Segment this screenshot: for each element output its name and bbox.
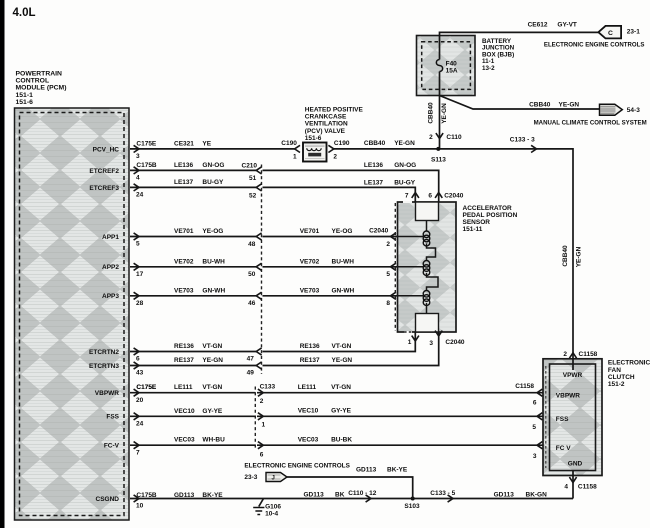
svg-text:1: 1 bbox=[293, 153, 297, 160]
svg-text:28: 28 bbox=[136, 300, 144, 307]
PCM pin ETCRTN3 label, exit arrow, pin 43 bbox=[89, 362, 144, 377]
svg-text:ETCREF3: ETCREF3 bbox=[89, 185, 119, 192]
svg-text:BU-GY: BU-GY bbox=[394, 180, 416, 187]
svg-text:CE321: CE321 bbox=[174, 140, 194, 147]
svg-text:46: 46 bbox=[248, 300, 256, 307]
svg-text:54-3: 54-3 bbox=[627, 107, 640, 114]
PCM pin ETCREF3 label, exit arrow, pin 24 bbox=[89, 184, 143, 199]
svg-text:CLUTCH: CLUTCH bbox=[608, 374, 635, 381]
svg-text:LE136: LE136 bbox=[364, 162, 384, 169]
svg-text:FAN: FAN bbox=[608, 367, 621, 374]
svg-text:7: 7 bbox=[136, 449, 140, 456]
svg-text:VPWR: VPWR bbox=[563, 372, 583, 379]
splice S103 bbox=[404, 497, 420, 511]
PCM pin FC-V label, exit arrow, pin 7 bbox=[104, 442, 140, 457]
svg-text:24: 24 bbox=[136, 421, 144, 428]
PCM pin APP2 label, exit arrow, pin 17 bbox=[102, 263, 144, 278]
battery junction box (BJB) with fuse F40 15A bbox=[417, 36, 476, 96]
svg-text:RE137: RE137 bbox=[174, 357, 194, 364]
svg-text:RE137: RE137 bbox=[300, 357, 320, 364]
svg-text:VBPWR: VBPWR bbox=[556, 392, 581, 399]
wire CBB40 YE-GN from C190 to S113 bbox=[334, 140, 439, 149]
svg-text:BU-GY: BU-GY bbox=[202, 179, 224, 186]
connector C133 pin 5 inline arrow bbox=[430, 490, 455, 502]
electronic engine controls text (top) bbox=[544, 41, 645, 48]
svg-text:151-11: 151-11 bbox=[463, 226, 483, 233]
svg-text:YE-OG: YE-OG bbox=[202, 228, 223, 235]
svg-text:C133: C133 bbox=[260, 384, 276, 391]
wire LE136 GN-OG from PCM pin 4 to C210 bbox=[130, 162, 262, 174]
svg-text:C2040: C2040 bbox=[445, 339, 465, 346]
svg-text:GN-WH: GN-WH bbox=[202, 287, 225, 294]
connector arrow to manual climate control system 54-3 bbox=[600, 104, 641, 115]
svg-text:5: 5 bbox=[386, 271, 390, 278]
svg-text:S113: S113 bbox=[431, 157, 446, 164]
svg-text:HEATED POSITIVE: HEATED POSITIVE bbox=[305, 107, 364, 114]
svg-text:FC-V: FC-V bbox=[104, 443, 120, 450]
svg-text:C133 - 5: C133 - 5 bbox=[430, 490, 455, 497]
connector C210 dashed line bbox=[242, 162, 262, 374]
svg-text:6: 6 bbox=[260, 451, 264, 458]
fan clutch pin 2 arrow C1158 bbox=[563, 351, 597, 358]
svg-text:LE111: LE111 bbox=[298, 384, 317, 391]
svg-text:CE612: CE612 bbox=[528, 22, 548, 29]
manual climate control system text bbox=[534, 119, 647, 126]
svg-text:2: 2 bbox=[563, 351, 567, 358]
svg-text:CONTROL: CONTROL bbox=[16, 78, 50, 85]
svg-text:C1158: C1158 bbox=[515, 383, 534, 390]
wire VE703 GN-WH from PCM to C210 bbox=[130, 287, 262, 307]
wire VEC03 WH-BU from PCM pin 7 to C133 bbox=[130, 437, 255, 446]
svg-text:WH-BU: WH-BU bbox=[202, 437, 225, 444]
svg-text:C175E: C175E bbox=[136, 140, 157, 147]
heated PCV valve bbox=[303, 143, 327, 162]
C133 pin 1 arrow bbox=[258, 413, 266, 429]
svg-text:C175B: C175B bbox=[136, 162, 157, 169]
svg-text:C1158: C1158 bbox=[579, 351, 598, 358]
svg-text:C175E: C175E bbox=[136, 384, 157, 391]
fan clutch GND pin 4 wire C1158 bbox=[564, 471, 597, 499]
svg-text:6: 6 bbox=[533, 400, 537, 407]
svg-text:BK-YE: BK-YE bbox=[202, 492, 223, 499]
PCM text label bbox=[16, 71, 67, 106]
PCV valve text label bbox=[305, 107, 364, 142]
svg-text:48: 48 bbox=[248, 241, 256, 248]
svg-text:YE-GN: YE-GN bbox=[394, 140, 415, 147]
svg-text:VEC10: VEC10 bbox=[298, 407, 319, 414]
wire RE136 VT-GN from PCM pin 6 to C210 bbox=[130, 343, 262, 363]
svg-text:3: 3 bbox=[429, 340, 433, 347]
svg-text:PEDAL POSITION: PEDAL POSITION bbox=[463, 212, 518, 219]
svg-text:LE137: LE137 bbox=[174, 179, 194, 186]
svg-text:2: 2 bbox=[386, 241, 390, 248]
svg-text:C: C bbox=[608, 30, 613, 37]
svg-text:LE137: LE137 bbox=[364, 180, 384, 187]
svg-text:24: 24 bbox=[136, 192, 144, 199]
svg-text:LE111: LE111 bbox=[174, 384, 193, 391]
PCM pin CSGND label, exit arrow, pin 10 bbox=[96, 492, 157, 510]
svg-text:GD113: GD113 bbox=[304, 491, 325, 498]
svg-text:VE703: VE703 bbox=[174, 287, 194, 294]
svg-text:BU-WH: BU-WH bbox=[332, 258, 355, 265]
wire CBB40 YE-GN from BJB to manual climate control bbox=[440, 96, 600, 110]
svg-text:YE-GN: YE-GN bbox=[441, 103, 448, 124]
svg-text:VT-GN: VT-GN bbox=[202, 343, 222, 350]
svg-text:2: 2 bbox=[429, 134, 433, 141]
svg-text:151-6: 151-6 bbox=[305, 135, 322, 142]
wire VEC10 GY-YE from PCM pin 24 to C133 bbox=[130, 408, 255, 417]
svg-text:VEC03: VEC03 bbox=[298, 437, 319, 444]
powertrain control module (PCM) box bbox=[15, 108, 130, 520]
wire RE137 YE-GN from C210 to APPS pin 3 bbox=[263, 336, 439, 366]
C133 pin 6 arrow bbox=[258, 442, 264, 459]
svg-text:LE136: LE136 bbox=[174, 162, 194, 169]
svg-text:4: 4 bbox=[564, 484, 568, 491]
svg-text:C210: C210 bbox=[242, 162, 258, 169]
svg-text:SENSOR: SENSOR bbox=[463, 219, 491, 226]
svg-text:GN-OG: GN-OG bbox=[394, 162, 416, 169]
svg-text:10-4: 10-4 bbox=[265, 510, 278, 517]
svg-text:BK-YE: BK-YE bbox=[387, 466, 408, 473]
svg-text:MANUAL CLIMATE CONTROL SYSTEM: MANUAL CLIMATE CONTROL SYSTEM bbox=[534, 119, 647, 126]
connector C110 pin 2 bbox=[429, 133, 462, 141]
PCM pin PCV_HC label, exit arrow, pin 3 bbox=[93, 140, 157, 160]
svg-text:151-1: 151-1 bbox=[16, 92, 34, 99]
svg-text:C110 - 12: C110 - 12 bbox=[348, 490, 377, 497]
svg-text:S103: S103 bbox=[404, 503, 420, 510]
svg-text:BK: BK bbox=[335, 491, 345, 498]
svg-text:1: 1 bbox=[408, 339, 412, 346]
svg-text:5: 5 bbox=[532, 424, 536, 431]
svg-text:YE-GN: YE-GN bbox=[576, 246, 583, 267]
svg-text:151-6: 151-6 bbox=[16, 99, 34, 106]
svg-text:51: 51 bbox=[249, 175, 257, 182]
svg-text:VEC03: VEC03 bbox=[174, 437, 195, 444]
svg-text:CBB40: CBB40 bbox=[428, 102, 435, 124]
wire CE321 YE from PCM pin 3 to C190 bbox=[130, 140, 295, 149]
svg-text:POWERTRAIN: POWERTRAIN bbox=[16, 71, 63, 78]
APPS pins 1 and 3 arrows and C2040 bbox=[408, 331, 465, 347]
svg-text:23-3: 23-3 bbox=[244, 474, 257, 481]
fan clutch text label bbox=[608, 360, 650, 388]
wire GD113 BK-YE from PCM pin 10 (CSGND) bbox=[130, 492, 573, 499]
wire VE701 YE-OG from C210 to APPS bbox=[130, 22, 650, 518]
wire CE612 GY-VT from BJB to electronic engine controls bbox=[440, 22, 599, 36]
svg-text:VT-GN: VT-GN bbox=[331, 384, 351, 391]
svg-text:VBPWR: VBPWR bbox=[95, 390, 120, 397]
svg-text:(PCV) VALVE: (PCV) VALVE bbox=[305, 128, 346, 135]
svg-text:VE701: VE701 bbox=[300, 228, 320, 235]
C133 pin 2 arrow bbox=[258, 389, 264, 405]
svg-text:C190: C190 bbox=[334, 140, 350, 147]
svg-text:7: 7 bbox=[405, 193, 409, 200]
svg-text:50: 50 bbox=[248, 271, 256, 278]
svg-text:ELECTRONIC: ELECTRONIC bbox=[608, 360, 650, 367]
wire LE136 GN-OG from C210 to APPS pin 6 bbox=[263, 162, 439, 196]
connector J from electronic engine controls bbox=[266, 473, 287, 482]
wire VEC10 GY-YE from C133 to fan clutch pin 5 bbox=[257, 407, 543, 420]
svg-text:23-1: 23-1 bbox=[627, 28, 640, 35]
PCM pin APP1 label, exit arrow, pin 5 bbox=[102, 233, 140, 248]
wire VE702 BU-WH from PCM to C210 bbox=[130, 258, 262, 278]
PCM pin APP3 label, exit arrow, pin 28 bbox=[102, 292, 144, 307]
svg-text:CBB40: CBB40 bbox=[364, 140, 386, 147]
wire VE703 GN-WH from C210 to APPS bbox=[130, 22, 650, 518]
wire VE701 YE-OG from PCM to C210 bbox=[130, 228, 262, 248]
wire YE-GN from S113 to fan clutch VPWR via C133-3 bbox=[440, 136, 583, 353]
svg-text:VT-GN: VT-GN bbox=[202, 384, 222, 391]
electronic fan clutch box bbox=[543, 359, 602, 476]
wire VE702 BU-WH from C210 to APPS bbox=[130, 22, 650, 518]
C210 pin 52 bbox=[249, 193, 257, 200]
svg-text:ELECTRONIC ENGINE CONTROLS: ELECTRONIC ENGINE CONTROLS bbox=[544, 41, 645, 48]
svg-text:YE-GN: YE-GN bbox=[202, 357, 223, 364]
svg-text:CBB40: CBB40 bbox=[562, 245, 569, 267]
svg-text:4: 4 bbox=[136, 175, 140, 182]
svg-text:151-2: 151-2 bbox=[608, 381, 625, 388]
svg-text:CSGND: CSGND bbox=[96, 496, 120, 503]
PCM pin ETCREF2 label, exit arrow, pin 4 bbox=[89, 162, 157, 182]
svg-text:3: 3 bbox=[136, 153, 140, 160]
svg-text:43: 43 bbox=[136, 370, 144, 377]
wire GD113 BK labels bbox=[304, 491, 345, 498]
wire LE137 BU-GY from C210 to APPS pin 7 bbox=[263, 180, 416, 197]
wire GD113 BK-GN labels bbox=[494, 492, 548, 499]
svg-text:4.0L: 4.0L bbox=[13, 7, 36, 19]
APPS internal potentiometer elements bbox=[398, 197, 439, 337]
svg-text:1: 1 bbox=[262, 422, 266, 429]
APPS pin 7 arrow bbox=[405, 193, 419, 200]
connector C133 dashed line bbox=[255, 384, 275, 451]
wire LE137 BU-GY from PCM pin 24 to C210 bbox=[130, 179, 262, 191]
svg-text:10: 10 bbox=[136, 503, 144, 510]
BJB text label bbox=[482, 38, 515, 72]
PCM pin FSS label, exit arrow, pin 24 bbox=[106, 413, 143, 428]
svg-text:GY-VT: GY-VT bbox=[557, 22, 577, 29]
svg-text:13-2: 13-2 bbox=[482, 65, 495, 72]
svg-text:VT-GN: VT-GN bbox=[332, 343, 352, 350]
electronic engine controls text (bottom) bbox=[244, 462, 350, 481]
svg-text:2: 2 bbox=[260, 398, 264, 405]
svg-text:8: 8 bbox=[386, 300, 390, 307]
svg-text:C110: C110 bbox=[446, 134, 462, 141]
C210 pin 51 bbox=[249, 175, 257, 182]
svg-text:VE702: VE702 bbox=[300, 258, 320, 265]
connector C190 pin 1 bbox=[281, 140, 300, 160]
fan clutch VPWR internal wire bbox=[572, 354, 574, 370]
svg-text:CRANKCASE: CRANKCASE bbox=[305, 114, 347, 121]
svg-text:YE-GN: YE-GN bbox=[559, 102, 580, 109]
svg-text:BU-BK: BU-BK bbox=[331, 437, 352, 444]
svg-text:RE136: RE136 bbox=[300, 343, 320, 350]
svg-text:VE701: VE701 bbox=[174, 228, 194, 235]
svg-text:RE136: RE136 bbox=[174, 343, 194, 350]
svg-text:GN-WH: GN-WH bbox=[332, 287, 355, 294]
svg-text:YE-OG: YE-OG bbox=[332, 228, 353, 235]
wire CBB40 YE-GN from BJB fuse down to S113 bbox=[428, 96, 448, 149]
svg-text:6: 6 bbox=[428, 193, 432, 200]
svg-text:15A: 15A bbox=[446, 68, 458, 75]
svg-text:VE703: VE703 bbox=[300, 287, 320, 294]
svg-text:VEC10: VEC10 bbox=[174, 408, 195, 415]
svg-text:VE702: VE702 bbox=[174, 258, 194, 265]
svg-text:C190: C190 bbox=[281, 140, 297, 147]
svg-text:GN-OG: GN-OG bbox=[202, 162, 224, 169]
svg-text:GD113: GD113 bbox=[174, 492, 195, 499]
svg-text:C2040: C2040 bbox=[369, 227, 389, 234]
svg-text:VENTILATION: VENTILATION bbox=[305, 121, 348, 128]
svg-text:YE: YE bbox=[202, 140, 211, 147]
svg-text:ETCRTN3: ETCRTN3 bbox=[89, 363, 119, 370]
svg-text:17: 17 bbox=[136, 271, 144, 278]
connector C110 pin 12 inline arrow bbox=[348, 490, 377, 502]
wire RE136 VT-GN from C210 to APPS pin 1 bbox=[263, 336, 416, 352]
APPS pin 6 arrow and C2040 bbox=[428, 193, 463, 200]
wire VEC03 BU-BK from C133 to fan clutch pin 3 bbox=[257, 437, 543, 449]
svg-text:YE-GN: YE-GN bbox=[332, 357, 353, 364]
svg-text:APP3: APP3 bbox=[102, 293, 119, 300]
svg-text:52: 52 bbox=[249, 193, 257, 200]
svg-text:6: 6 bbox=[136, 356, 140, 363]
PCM pin VBPWR label, exit arrow, pin 20 bbox=[95, 384, 157, 404]
svg-text:2: 2 bbox=[333, 153, 337, 160]
svg-text:ELECTRONIC ENGINE CONTROLS: ELECTRONIC ENGINE CONTROLS bbox=[244, 462, 350, 469]
svg-text:BK-GN: BK-GN bbox=[526, 492, 548, 499]
svg-text:GND: GND bbox=[568, 461, 583, 468]
svg-text:CBB40: CBB40 bbox=[529, 102, 551, 109]
svg-text:FC V: FC V bbox=[556, 445, 571, 452]
svg-text:APP1: APP1 bbox=[102, 234, 119, 241]
splice S113 bbox=[431, 147, 446, 164]
svg-text:47: 47 bbox=[247, 356, 255, 363]
ground G106 bbox=[253, 499, 281, 518]
svg-text:BU-WH: BU-WH bbox=[202, 258, 225, 265]
svg-text:20: 20 bbox=[136, 397, 144, 404]
svg-text:C1158: C1158 bbox=[578, 484, 597, 491]
fan clutch pin numbers bbox=[532, 400, 537, 461]
svg-text:F40: F40 bbox=[446, 60, 458, 67]
svg-text:ACCELERATOR: ACCELERATOR bbox=[463, 205, 513, 212]
svg-text:APP2: APP2 bbox=[102, 264, 119, 271]
svg-text:C133 - 3: C133 - 3 bbox=[510, 136, 535, 143]
svg-text:GD113: GD113 bbox=[494, 492, 515, 499]
svg-text:G106: G106 bbox=[265, 503, 281, 510]
svg-text:C2040: C2040 bbox=[444, 193, 464, 200]
svg-text:GD113: GD113 bbox=[356, 466, 377, 473]
wire RE137 YE-GN from PCM pin 43 to C210 bbox=[130, 357, 262, 377]
svg-text:GY-YE: GY-YE bbox=[331, 407, 352, 414]
svg-text:MODULE (PCM): MODULE (PCM) bbox=[16, 85, 67, 92]
svg-text:PCV_HC: PCV_HC bbox=[93, 146, 120, 153]
connector C to electronic engine controls 23-1 bbox=[598, 26, 640, 39]
svg-text:ETCREF2: ETCREF2 bbox=[89, 168, 119, 175]
svg-text:J: J bbox=[272, 475, 275, 481]
svg-text:3: 3 bbox=[533, 453, 537, 460]
PCM pin ETCRTN2 label, exit arrow, pin 6 bbox=[89, 348, 140, 363]
APPS text label bbox=[463, 205, 518, 233]
svg-text:ETCRTN2: ETCRTN2 bbox=[89, 349, 119, 356]
svg-text:49: 49 bbox=[247, 370, 255, 377]
svg-text:FSS: FSS bbox=[556, 416, 569, 423]
svg-text:5: 5 bbox=[136, 241, 140, 248]
accelerator pedal position sensor box bbox=[395, 202, 456, 332]
wire LE111 VT-GN from PCM pin 20 to C133 bbox=[130, 384, 255, 393]
wire GD113 BK-YE from J connector to S103 bbox=[287, 466, 413, 498]
connector C190 pin 2 bbox=[328, 140, 349, 160]
wire LE111 VT-GN from C133 to fan clutch pin 6 bbox=[257, 383, 543, 396]
svg-text:GY-YE: GY-YE bbox=[202, 408, 223, 415]
svg-text:FSS: FSS bbox=[106, 414, 119, 421]
